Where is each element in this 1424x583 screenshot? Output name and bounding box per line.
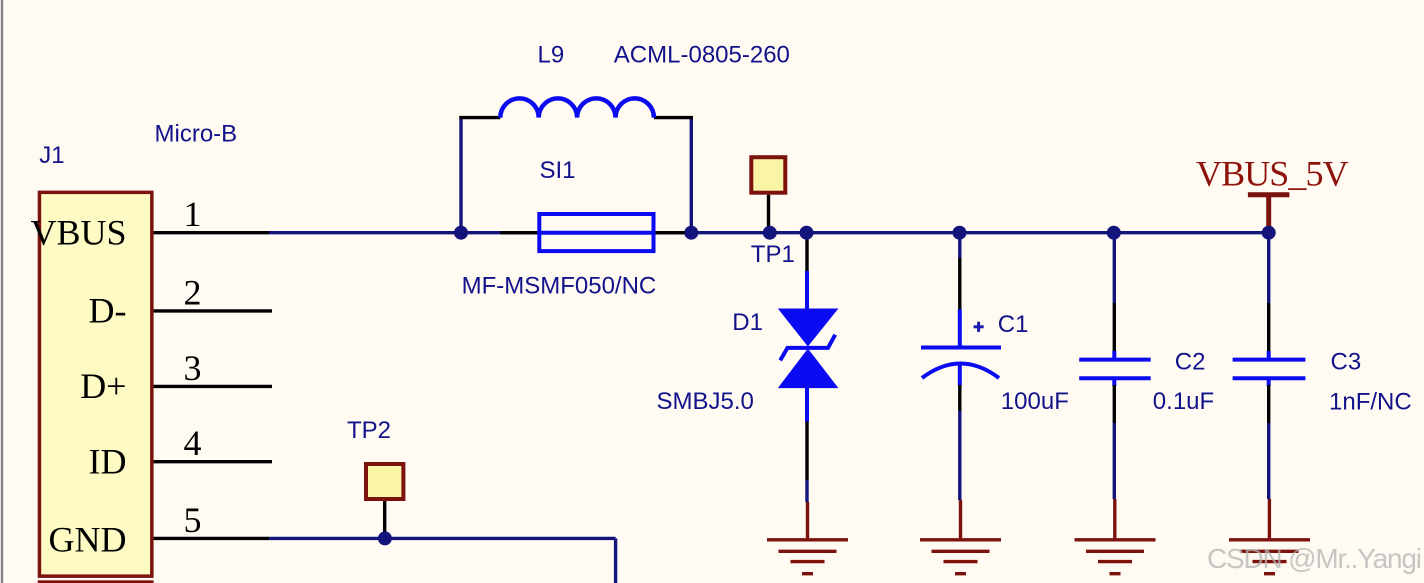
capacitor C2 wire from bus (navy): [1113, 233, 1116, 303]
junction dot at C1 branch: [953, 226, 967, 240]
junction dot at VBUS_5V / C3: [1262, 226, 1276, 240]
svg-text:D1: D1: [732, 309, 763, 336]
svg-text:GND: GND: [49, 520, 127, 560]
svg-text:CSDN @Mr..Yangi: CSDN @Mr..Yangi: [1207, 543, 1421, 574]
svg-text:100uF: 100uF: [1001, 388, 1069, 415]
capacitor C3 wire from bus (navy): [1267, 233, 1270, 303]
test point TP2 pad: [366, 464, 403, 499]
test point TP1 lead: [767, 195, 770, 233]
ground symbol at D1: [767, 502, 848, 574]
diode D1 TVS symbol: [778, 309, 839, 389]
wire C2 to ground: [1113, 423, 1116, 499]
power symbol VBUS_5V: [1248, 195, 1290, 228]
svg-text:SI1: SI1: [540, 157, 576, 184]
svg-text:C3: C3: [1331, 349, 1362, 376]
junction dot at D1 branch: [800, 226, 814, 240]
plus sign for C1: [974, 322, 984, 332]
inductor L9 coils: [500, 98, 654, 117]
test point TP1 pad: [751, 157, 785, 193]
svg-text:L9: L9: [538, 42, 565, 69]
svg-text:4: 4: [184, 423, 202, 463]
junction dot at TP2: [378, 531, 392, 545]
inductor L9 right lead (black): [654, 116, 693, 119]
wire VBUS net horizontal: [269, 231, 1269, 234]
svg-text:C2: C2: [1175, 349, 1206, 376]
wire C3 to ground: [1267, 423, 1270, 499]
junction dot at L9 left: [454, 226, 468, 240]
diode D1 lower pin (black): [805, 422, 808, 481]
capacitor C3 upper pin (black): [1267, 303, 1270, 355]
capacitor C2 symbol: [1079, 351, 1151, 386]
svg-text:D-: D-: [89, 291, 127, 331]
svg-text:Micro-B: Micro-B: [155, 121, 238, 148]
ground symbol at C1: [920, 500, 1001, 574]
pin 3 (D+) stub: [154, 385, 272, 388]
junction dot at L9 right: [684, 226, 698, 240]
fuse SI1 body: [537, 214, 655, 251]
ground symbol at C3: [1229, 499, 1310, 574]
wire GND net horizontal: [269, 537, 615, 540]
svg-text:ID: ID: [89, 441, 127, 481]
pin 4 (ID) stub: [154, 460, 272, 463]
diode D1 lower pin (blue): [805, 386, 809, 422]
diode D1 branch upper pin (black): [805, 233, 808, 273]
capacitor C1 wire from bus (navy): [958, 233, 961, 258]
svg-text:VBUS_5V: VBUS_5V: [1196, 153, 1349, 193]
svg-text:5: 5: [184, 500, 202, 540]
svg-text:MF-MSMF050/NC: MF-MSMF050/NC: [462, 272, 657, 299]
wire L9 right vertical: [690, 118, 693, 233]
diode D1 branch upper pin (blue): [805, 271, 809, 310]
svg-text:TP2: TP2: [347, 417, 391, 444]
junction dot at TP1: [763, 226, 777, 240]
svg-text:2: 2: [184, 272, 202, 312]
svg-text:C1: C1: [998, 311, 1029, 338]
capacitor C3 lower pin (black): [1267, 385, 1270, 423]
capacitor C1 upper pin (black): [958, 258, 961, 311]
capacitor C1 lower pin (black): [958, 385, 961, 411]
test point TP2 lead: [383, 501, 386, 538]
pin 2 (D-) stub: [154, 309, 272, 312]
svg-text:ACML-0805-260: ACML-0805-260: [614, 42, 790, 69]
svg-text:D+: D+: [80, 366, 126, 406]
fuse SI1 right pin (black): [656, 231, 693, 234]
wire C1 to ground: [958, 411, 961, 500]
svg-text:3: 3: [184, 348, 202, 388]
svg-text:1nF/NC: 1nF/NC: [1329, 389, 1412, 416]
svg-text:0.1uF: 0.1uF: [1153, 388, 1214, 415]
svg-text:1: 1: [184, 194, 202, 234]
capacitor C2 lower pin (black): [1113, 385, 1116, 423]
wire L9 left vertical: [459, 118, 462, 233]
junction dot at C2 branch: [1107, 226, 1121, 240]
connector J1 body: [39, 192, 151, 583]
pin 1 (VBUS) stub: [154, 231, 269, 234]
ground symbol at C2: [1075, 499, 1156, 574]
inductor L9 left lead (black): [459, 116, 500, 119]
svg-text:SMBJ5.0: SMBJ5.0: [657, 388, 754, 415]
svg-text:VBUS: VBUS: [30, 212, 126, 252]
wire GND net vertical to bottom: [614, 538, 617, 583]
svg-text:TP1: TP1: [751, 241, 795, 268]
fuse SI1 left pin (black): [500, 231, 537, 234]
svg-text:J1: J1: [39, 142, 64, 169]
capacitor C3 symbol: [1233, 351, 1306, 386]
capacitor C1 symbol (polarized): [921, 309, 1001, 386]
wire D1 to ground: [805, 480, 808, 502]
pin 5 (GND) stub: [154, 537, 270, 540]
capacitor C2 upper pin (black): [1113, 303, 1116, 355]
